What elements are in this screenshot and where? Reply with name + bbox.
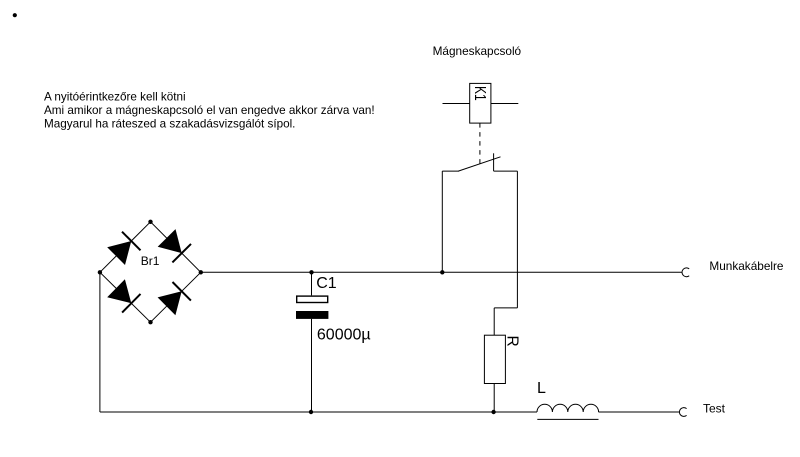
svg-text:60000µ: 60000µ (317, 327, 371, 344)
junction R / bottom line (491, 410, 495, 414)
switch blade (458, 157, 500, 171)
wire: switch right down across main line (516, 171, 518, 308)
diode D2 (top-right) of bridge Br1 (158, 229, 191, 262)
bullet point (13, 13, 17, 17)
terminal Munkakábelre (682, 268, 689, 277)
svg-text:Munkakábelre: Munkakábelre (709, 259, 784, 273)
wire: C1 down to bottom line (311, 319, 313, 412)
wire: resistor bottom to Test line (493, 384, 495, 413)
wire: jog down to resistor top (493, 308, 495, 335)
diode D1 (left-top) of bridge Br1 (107, 232, 140, 265)
svg-text:K1: K1 (471, 86, 488, 101)
wire: K1 left terminal stub (443, 103, 470, 105)
junction C1 / bottom line (309, 410, 313, 414)
capacitor C1 bottom plate (296, 311, 328, 319)
switch right lead (494, 170, 518, 172)
wire: K1 right terminal stub (491, 103, 518, 105)
svg-text:Br1: Br1 (141, 254, 160, 268)
node bridge left (98, 270, 102, 274)
diode D3 (left-bottom) of bridge Br1 (107, 279, 140, 312)
svg-text:Test: Test (703, 402, 726, 416)
terminal Test (679, 408, 686, 417)
node bridge top (148, 220, 152, 224)
dashed mechanical link from K1 to switch (479, 123, 481, 164)
inductor L underline (537, 418, 598, 420)
wire: jog horizontal to resistor (494, 307, 517, 309)
svg-text:C1: C1 (316, 275, 337, 292)
node bridge bottom (148, 320, 152, 324)
svg-text:Ami amikor a mágneskapcsoló el: Ami amikor a mágneskapcsoló el van enged… (44, 104, 375, 117)
wire: bottom line right segment (599, 411, 680, 413)
bridge Br1 side bottom-right (151, 272, 201, 322)
switch left lead (442, 170, 459, 172)
bridge Br1 side top-right (151, 222, 201, 272)
node bridge right (199, 270, 203, 274)
bridge Br1 side left-bottom (100, 272, 151, 322)
junction C1 / main line (309, 270, 313, 274)
bridge Br1 side left-top (100, 222, 151, 272)
diode D4 (bottom-right) of bridge Br1 (158, 282, 191, 315)
wire: main line to Munkakábelre (201, 271, 682, 273)
relay coil K1 box (470, 83, 491, 123)
svg-text:A nyitóérintkezőre kell kötni: A nyitóérintkezőre kell kötni (44, 90, 186, 103)
svg-text:Mágneskapcsoló: Mágneskapcsoló (433, 44, 522, 58)
inductor L (537, 404, 599, 412)
svg-text:R: R (504, 336, 521, 347)
wire: switch left down to main line (441, 171, 443, 272)
junction switch loop / main line (440, 270, 444, 274)
capacitor C1 top plate (297, 296, 328, 302)
wire: left vertical from bridge to bottom line (99, 272, 101, 412)
svg-text:Magyarul ha ráteszed a szakadá: Magyarul ha ráteszed a szakadásvizsgálót… (44, 117, 295, 130)
wire: main line down to C1 (311, 272, 313, 295)
svg-text:L: L (537, 380, 546, 397)
resistor R (484, 335, 505, 383)
wire: bottom line left segment (100, 411, 537, 413)
switch fixed contact (493, 153, 495, 171)
